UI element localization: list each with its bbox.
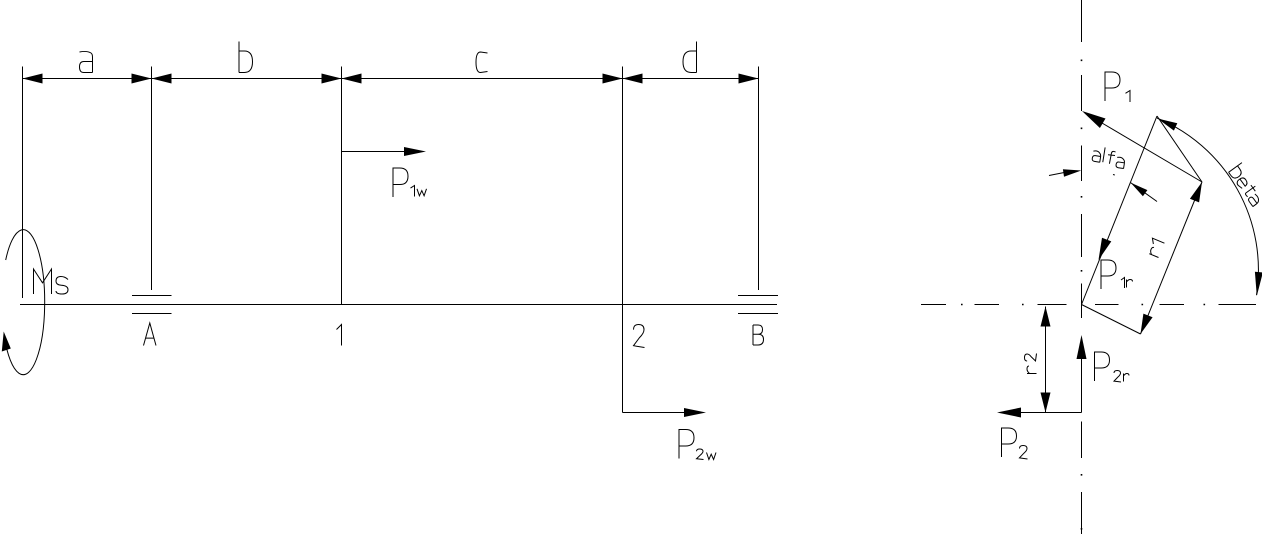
force P2r line — [1081, 359, 1083, 413]
dimension arrow b-left — [152, 74, 172, 84]
centerline horizontal axis (dash-dot) — [921, 304, 1256, 306]
label P2w — [679, 430, 716, 460]
label B — [753, 325, 764, 345]
alfa leader left — [1049, 172, 1068, 176]
label beta (rotated) — [1228, 163, 1262, 207]
force P1 arrowhead — [1082, 111, 1106, 128]
label P1 — [1105, 72, 1130, 102]
label b — [239, 42, 253, 73]
label node 1 — [337, 325, 342, 346]
force P1w line — [342, 151, 406, 153]
label alfa — [1091, 146, 1126, 169]
label P1w — [393, 168, 427, 197]
wire side O-T (P1r line of action) — [1082, 116, 1158, 305]
force P1w arrowhead — [404, 147, 426, 156]
bearing B lower plate — [738, 313, 778, 315]
alfa arrow at centerline — [1063, 169, 1081, 177]
wire extension line at bearing A / support — [151, 67, 153, 291]
centerline vertical axis dots — [1081, 60, 1083, 530]
label d — [683, 42, 697, 73]
dimension arrow a-left — [23, 74, 43, 84]
label Ms — [34, 269, 69, 294]
moment Ms arrowhead — [2, 332, 11, 352]
centerline vertical axis (dash-dot) — [1081, 0, 1083, 534]
dimension arrow a-right — [132, 74, 152, 84]
wire extension line left end (x=22) — [22, 67, 24, 299]
label c — [476, 52, 488, 73]
wire extension line at bearing B — [758, 67, 760, 291]
label r1 (rotated) — [1146, 238, 1164, 257]
wire side T-R — [1157, 116, 1202, 182]
alfa leader right — [1131, 183, 1157, 202]
wire extension line at node 1 — [341, 67, 343, 305]
beta arc — [1157, 118, 1258, 295]
dimension r2 arrow top — [1041, 307, 1051, 327]
force P1 line — [1102, 123, 1202, 182]
wire dimension line a-b-c-d — [23, 78, 759, 80]
force P2r arrowhead — [1077, 335, 1087, 359]
label P2r — [1095, 352, 1130, 382]
label P2 — [1002, 428, 1028, 459]
beta arc arrow bottom (at centerline) — [1255, 272, 1262, 296]
wire side O-B — [1082, 305, 1141, 335]
dimension r1 line — [1141, 182, 1203, 334]
moment Ms ellipse arc — [5, 230, 45, 375]
dimension r2 line — [1045, 307, 1047, 413]
dimension r1 arrow bottom — [1141, 314, 1153, 334]
label r2 (rotated) — [1025, 354, 1037, 374]
dimension arrow b-right — [322, 74, 342, 84]
label A — [144, 323, 157, 346]
dimension r2 arrow bottom — [1041, 393, 1051, 413]
centerline horizontal axis dots — [961, 304, 1205, 306]
dimension arrow c-right — [603, 74, 623, 84]
force P2 arrowhead — [997, 408, 1021, 418]
bearing A upper plate — [132, 295, 172, 297]
bearing A lower plate — [132, 313, 172, 315]
force P2w line — [623, 412, 685, 414]
force P2w arrowhead — [684, 408, 706, 417]
wire shaft axis — [20, 304, 777, 306]
beta arc arrow top (at T) — [1158, 119, 1178, 131]
alfa arrow at P1r line — [1131, 183, 1148, 197]
dimension r1 arrow top — [1190, 182, 1202, 202]
force P2 line — [1021, 412, 1082, 414]
alfa arc dot — [1113, 174, 1115, 177]
label P1r — [1101, 260, 1133, 289]
dimension arrow c-left — [342, 74, 362, 84]
bearing B upper plate — [738, 295, 778, 297]
wire extension line at node 2 — [622, 67, 624, 413]
label node 2 — [634, 325, 645, 348]
dimension arrow d-right — [739, 74, 759, 84]
dimension arrow d-left — [623, 74, 643, 84]
force P1r arrowhead — [1099, 238, 1112, 260]
label a — [80, 51, 93, 72]
